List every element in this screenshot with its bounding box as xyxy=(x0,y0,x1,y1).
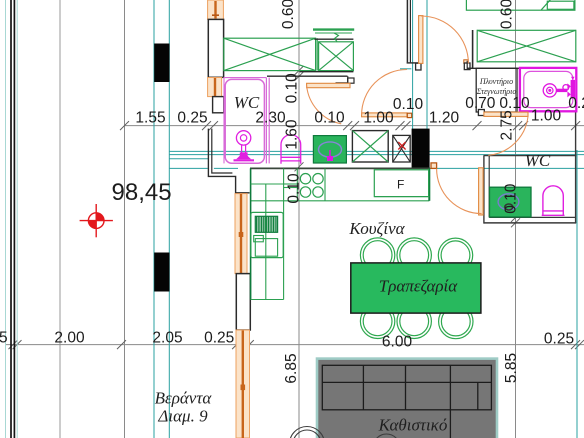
cooktop burner 1 xyxy=(300,174,310,184)
door D5 arc xyxy=(307,86,342,124)
svg-text:0.25: 0.25 xyxy=(177,109,207,126)
fridge inner line xyxy=(374,196,429,198)
svg-text:0.10: 0.10 xyxy=(284,73,301,104)
shelf above CB2 xyxy=(313,30,354,42)
left parapet wall line 2 xyxy=(13,0,15,438)
balcony edge line left outer xyxy=(5,0,7,438)
svg-text:6.85: 6.85 xyxy=(283,353,300,383)
crossed box CB6 xyxy=(393,135,410,162)
svg-text:2.00: 2.00 xyxy=(54,330,85,347)
svg-text:0.70: 0.70 xyxy=(465,95,496,112)
door D4 leaf xyxy=(362,113,407,117)
grid line D vertical xyxy=(515,0,517,438)
ticks upper dim line xyxy=(120,121,580,130)
svg-text:Βεράντα: Βεράντα xyxy=(155,389,213,408)
laundry top wall xyxy=(467,67,520,69)
hall wall jog xyxy=(407,62,420,64)
door D5 leaf xyxy=(307,83,350,87)
sofa seat outline xyxy=(322,365,491,438)
WC1 top outer line xyxy=(224,77,266,79)
toilet T1 niche xyxy=(281,135,301,164)
svg-text:0.25: 0.25 xyxy=(544,330,574,347)
cooktop burner 4 xyxy=(313,187,323,197)
crossed box CB5 xyxy=(352,131,388,162)
kitchen left run line 2 xyxy=(265,184,267,300)
dishwasher handle xyxy=(254,236,264,242)
hall wall top right line2 xyxy=(409,0,411,62)
grid line A vertical xyxy=(59,0,61,438)
beam line horizontal 2 xyxy=(169,154,584,156)
kitchen counter right edge xyxy=(428,168,430,200)
beam line horizontal 1 xyxy=(169,150,584,152)
left parapet wall line 1 xyxy=(10,0,12,438)
dining chair bottom 2 xyxy=(397,304,431,338)
cooktop burner 2 xyxy=(313,174,323,184)
svg-text:5.85: 5.85 xyxy=(503,353,520,383)
beam line horizontal 3a xyxy=(169,167,208,169)
svg-text:0.10: 0.10 xyxy=(499,95,530,112)
svg-text:1.00: 1.00 xyxy=(531,107,562,124)
fridge box F xyxy=(374,170,428,197)
svg-text:2.75: 2.75 xyxy=(499,110,516,140)
svg-text:5: 5 xyxy=(0,329,8,346)
interior wall left of kitchen inner xyxy=(212,129,233,173)
grid line B vertical xyxy=(124,0,126,438)
white post P1 xyxy=(208,19,223,77)
grid line C vertical xyxy=(298,0,300,438)
WC1 outer left line xyxy=(223,77,225,163)
WC1 right wall line 2 xyxy=(268,78,270,164)
elbow wall niche xyxy=(336,76,348,83)
door D2 arc xyxy=(488,116,528,155)
wc2 top wall xyxy=(484,155,577,157)
svg-text:1.20: 1.20 xyxy=(429,109,460,126)
counter lines left of cooktop xyxy=(284,183,298,185)
svg-text:WC: WC xyxy=(525,151,551,170)
svg-text:1.00: 1.00 xyxy=(363,109,394,126)
svg-text:2.30: 2.30 xyxy=(255,109,286,126)
sofa block xyxy=(317,359,497,438)
hall wall top right line1 xyxy=(406,0,408,62)
svg-text:6.00: 6.00 xyxy=(382,333,413,350)
wc2 bottom wall outer xyxy=(484,222,576,224)
dimension line lower xyxy=(5,344,584,346)
kitchen sink unit xyxy=(313,136,346,163)
DOORS xyxy=(307,16,528,215)
wc2 left wall inner xyxy=(488,156,490,218)
svg-text:F: F xyxy=(397,178,404,192)
beam line horizontal 3b xyxy=(214,167,238,169)
door D3 leaf xyxy=(479,168,484,215)
cooktop left divider xyxy=(296,168,298,200)
dishwasher lower box xyxy=(255,239,277,257)
kitchen counter top edge xyxy=(250,167,430,169)
plant circles xyxy=(290,427,325,438)
beam line vertical 1 xyxy=(153,0,155,438)
kitchen left run line 3 xyxy=(283,168,285,299)
svg-text:2.05: 2.05 xyxy=(152,330,182,347)
wc2 left wall outer xyxy=(483,156,485,224)
toilet T2 wc2 xyxy=(542,186,565,216)
WC1 right wall line 1 xyxy=(265,78,267,164)
white post P3 xyxy=(236,274,250,330)
door D3 arc xyxy=(437,169,482,214)
svg-text:WC: WC xyxy=(234,93,260,112)
svg-text:1.55: 1.55 xyxy=(135,109,165,126)
svg-text:0.10: 0.10 xyxy=(286,173,303,204)
ticks on grid D xyxy=(511,213,520,227)
door frame cap niche xyxy=(348,78,354,83)
washbasin WC1 xyxy=(234,131,255,161)
orange wall W4 veranda xyxy=(236,330,250,438)
door D1 leaf xyxy=(419,16,423,64)
column C1 xyxy=(154,44,169,83)
door D2 leaf xyxy=(484,112,528,116)
door D3 catch bracket xyxy=(431,163,437,169)
wc2 vanity xyxy=(490,187,532,217)
orange wall W3 xyxy=(235,194,247,274)
svg-text:98,45: 98,45 xyxy=(112,179,172,206)
door D1 catch bracket xyxy=(464,63,470,70)
hall wall jog post xyxy=(416,63,421,70)
round table arc xyxy=(373,434,400,438)
beam line horizontal short xyxy=(169,158,208,160)
beam line vertical right xyxy=(576,150,578,438)
svg-text:0.10: 0.10 xyxy=(503,183,520,214)
dishwasher hatched top xyxy=(255,216,277,232)
shower tray xyxy=(520,68,576,111)
dining chair top 2 xyxy=(397,238,431,272)
svg-text:0.25: 0.25 xyxy=(568,95,584,112)
dimension line upper xyxy=(125,125,584,127)
svg-text:Διαμ. 9: Διαμ. 9 xyxy=(157,407,208,426)
balcony edge line left inner xyxy=(16,0,18,438)
ticks on grid C xyxy=(295,66,304,171)
red survey marker xyxy=(80,204,113,237)
beam line vertical 4 xyxy=(426,0,428,152)
dishwasher outline xyxy=(251,212,283,257)
orange wall W2 xyxy=(208,78,222,97)
dining chair bottom 1 xyxy=(360,304,394,338)
closet crossed box CB3 xyxy=(477,30,576,62)
svg-text:1.60: 1.60 xyxy=(284,119,301,150)
kitchen left run bottom xyxy=(251,299,284,301)
top right cabinet CB4 xyxy=(466,0,575,10)
svg-text:0.10: 0.10 xyxy=(314,109,345,126)
cooktop burner 3 xyxy=(300,187,310,197)
ticks lower dim line xyxy=(9,340,584,349)
beam line vertical 2 xyxy=(168,0,170,438)
wardrobe crossed box CB1 xyxy=(224,38,316,70)
interior wall left of kitchen outer xyxy=(208,129,249,193)
svg-text:Κουζίνα: Κουζίνα xyxy=(348,219,405,238)
svg-text:0.25: 0.25 xyxy=(204,330,234,347)
svg-text:Πλυντήριο: Πλυντήριο xyxy=(479,77,513,86)
dining table xyxy=(351,263,481,313)
dining chair top 3 xyxy=(438,238,472,272)
beam line vertical 3 xyxy=(412,0,414,152)
kitchen shelf line xyxy=(251,183,284,185)
door D4 arc xyxy=(362,70,407,115)
WC1 room rounded outline xyxy=(225,79,264,163)
orange wall W1 top xyxy=(208,0,224,19)
closet wall notch xyxy=(467,61,472,69)
svg-text:0.60: 0.60 xyxy=(280,0,297,29)
door D1 arc xyxy=(421,16,468,63)
white post P2 xyxy=(213,97,224,113)
laundry room box xyxy=(476,68,517,112)
wardrobe divider xyxy=(316,38,318,70)
column C2 xyxy=(154,253,169,292)
svg-text:0.60: 0.60 xyxy=(499,0,516,29)
svg-text:Καθιστικό: Καθιστικό xyxy=(378,416,448,435)
door D4 hinge xyxy=(407,113,411,117)
CB2 black top line xyxy=(314,38,353,40)
svg-text:0.10: 0.10 xyxy=(393,96,424,113)
svg-text:Στεγνωτήριο: Στεγνωτήριο xyxy=(476,87,517,96)
FIXTURES xyxy=(80,68,577,237)
dining chair bottom 3 xyxy=(439,304,473,338)
beam line horizontal stub xyxy=(400,68,411,70)
FURNITURE xyxy=(224,0,576,438)
wall above niche WC1 xyxy=(267,75,348,77)
svg-text:Τραπεζαρία: Τραπεζαρία xyxy=(379,277,458,296)
CB black bottom line xyxy=(300,71,354,73)
beam line horizontal 3c xyxy=(430,167,584,169)
orange stub at D1 catch xyxy=(464,60,468,64)
kitchen counter left run edge xyxy=(250,168,252,299)
wc2 bottom wall inner xyxy=(489,216,575,218)
closet wall left edge xyxy=(472,30,474,68)
wc2 right wall xyxy=(575,111,577,223)
door D2 cap xyxy=(478,110,484,116)
column C3 kitchen xyxy=(412,129,430,168)
kitchen counter front edge xyxy=(251,200,430,202)
cooktop right divider xyxy=(324,168,326,200)
dining chair top 1 xyxy=(360,238,394,272)
wardrobe crossed box CB2 xyxy=(319,42,354,71)
